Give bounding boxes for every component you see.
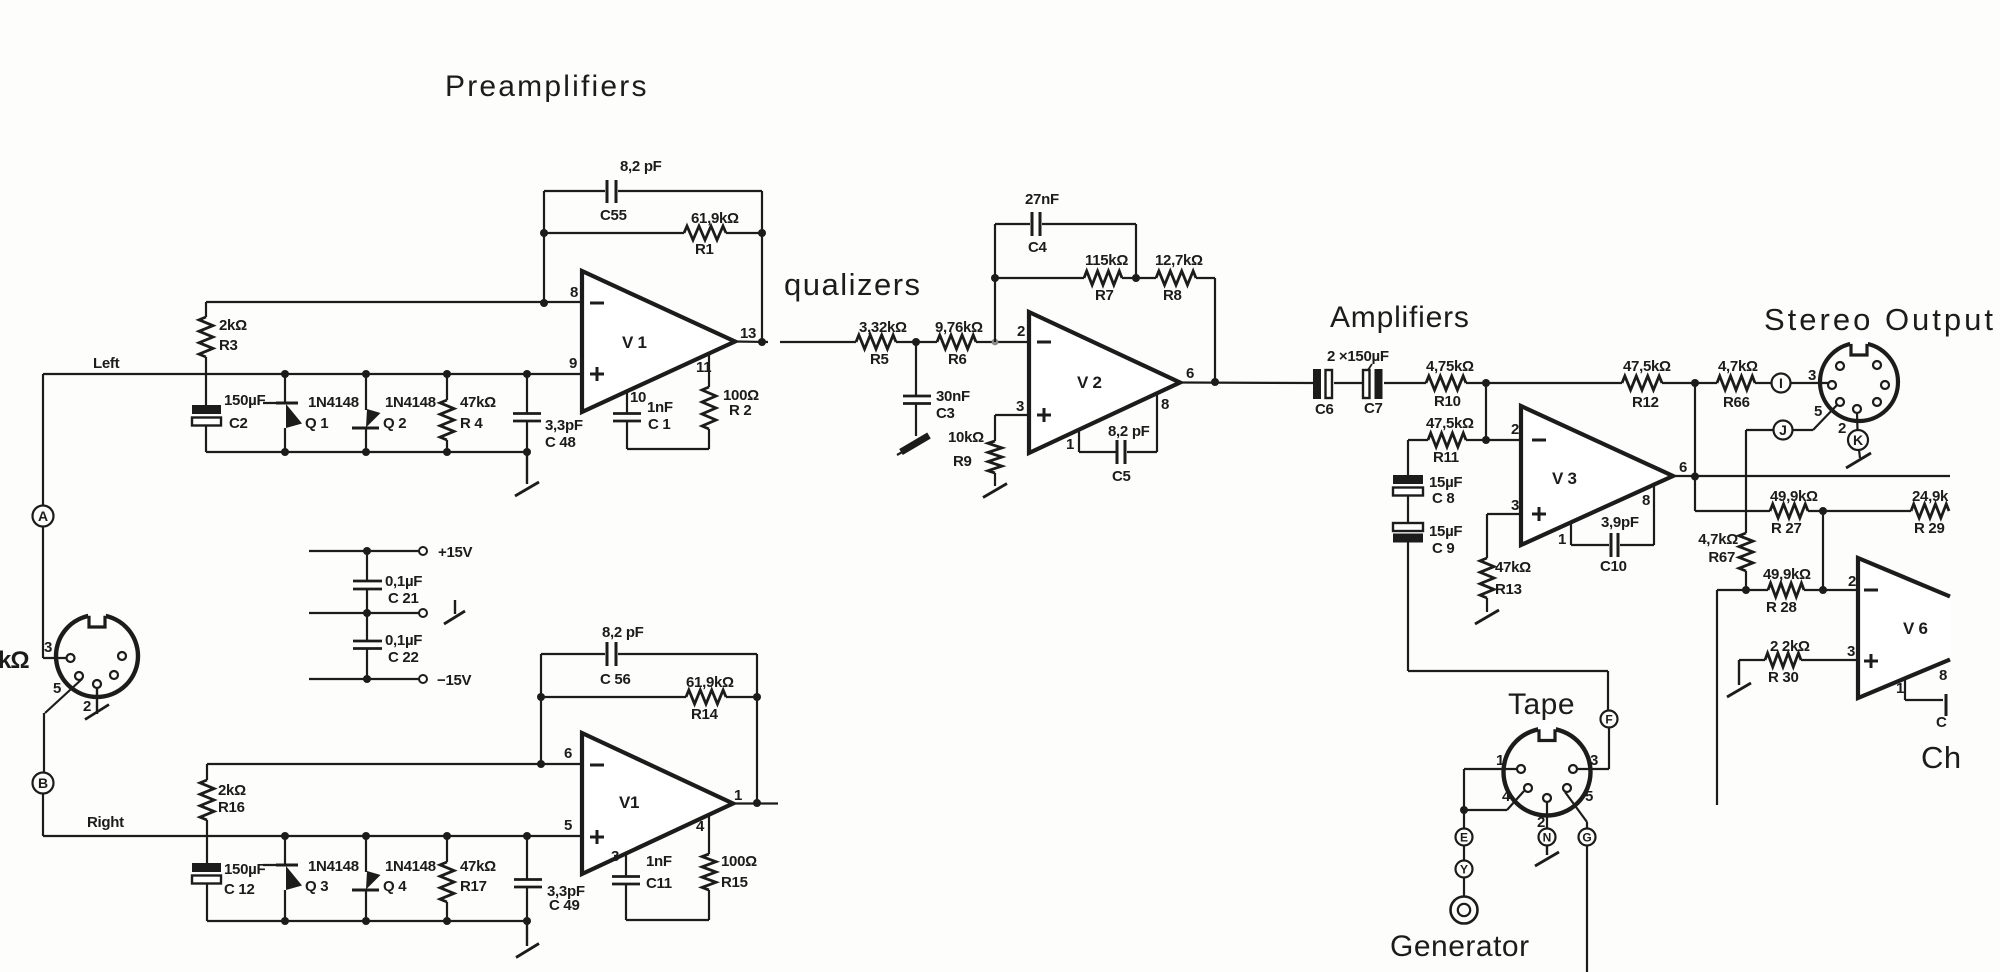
svg-text:0,1µF: 0,1µF [385,632,422,649]
svg-text:G: G [1582,830,1591,844]
svg-text:115kΩ: 115kΩ [1085,252,1128,269]
svg-text:C 9: C 9 [1432,540,1454,557]
svg-text:R7: R7 [1095,287,1114,304]
svg-text:C6: C6 [1315,401,1334,418]
svg-text:150µF: 150µF [224,861,265,878]
svg-text:R 4: R 4 [460,415,483,432]
svg-text:10kΩ: 10kΩ [948,429,984,446]
svg-text:1N4148: 1N4148 [308,394,359,411]
svg-text:8,2 pF: 8,2 pF [620,158,662,175]
svg-text:2: 2 [1838,420,1846,437]
svg-text:61,9kΩ: 61,9kΩ [686,674,734,691]
svg-text:1N4148: 1N4148 [385,394,436,411]
svg-text:47kΩ: 47kΩ [460,394,496,411]
svg-text:R 27: R 27 [1771,520,1802,537]
svg-text:3,3pF: 3,3pF [545,417,583,434]
svg-text:2kΩ: 2kΩ [219,317,247,334]
svg-text:1nF: 1nF [647,399,673,416]
svg-text:R16: R16 [218,799,245,816]
svg-text:47kΩ: 47kΩ [460,858,496,875]
svg-text:4,75kΩ: 4,75kΩ [1426,358,1474,375]
svg-text:61,9kΩ: 61,9kΩ [691,210,739,227]
svg-text:V 2: V 2 [1077,373,1102,392]
svg-text:49,9kΩ: 49,9kΩ [1770,488,1818,505]
svg-text:10: 10 [630,389,646,406]
svg-text:R11: R11 [1433,449,1459,466]
svg-text:3: 3 [1511,497,1519,514]
svg-text:C 56: C 56 [600,671,631,688]
svg-text:3: 3 [44,639,52,656]
svg-text:8: 8 [1939,667,1947,684]
svg-text:0,1µF: 0,1µF [385,573,422,590]
svg-text:C7: C7 [1364,400,1383,417]
svg-text:C 1: C 1 [648,416,670,433]
svg-text:5: 5 [564,817,572,834]
svg-text:C 8: C 8 [1432,490,1454,507]
svg-text:R12: R12 [1632,394,1659,411]
svg-text:6: 6 [1186,365,1194,382]
svg-text:6: 6 [564,745,572,762]
svg-text:C5: C5 [1112,468,1131,485]
svg-text:47,5kΩ: 47,5kΩ [1426,415,1474,432]
svg-text:9: 9 [569,355,577,372]
svg-text:150µF: 150µF [224,392,265,409]
svg-text:K: K [1853,432,1863,448]
svg-text:3: 3 [1590,752,1598,769]
svg-text:C10: C10 [1600,558,1627,575]
svg-text:1N4148: 1N4148 [308,858,359,875]
svg-text:C 12: C 12 [224,881,255,898]
svg-text:E: E [1460,830,1468,844]
svg-text:Tape: Tape [1508,688,1575,721]
svg-text:11: 11 [696,359,711,376]
svg-text:Q 1: Q 1 [305,415,328,432]
svg-text:100Ω: 100Ω [721,853,757,870]
svg-text:12,7kΩ: 12,7kΩ [1155,252,1203,269]
svg-text:F: F [1605,712,1612,726]
svg-text:2 2kΩ: 2 2kΩ [1770,638,1810,655]
svg-text:1: 1 [1896,680,1904,697]
svg-text:1: 1 [1558,531,1566,548]
svg-text:R10: R10 [1434,393,1461,410]
svg-text:2: 2 [1511,421,1519,438]
svg-text:R 29: R 29 [1914,520,1945,537]
svg-text:C11: C11 [646,875,672,892]
svg-text:R3: R3 [219,337,238,354]
svg-text:3: 3 [1016,398,1024,415]
svg-text:1nF: 1nF [646,853,672,870]
svg-text:8: 8 [1642,492,1650,509]
svg-text:R66: R66 [1723,394,1750,411]
svg-text:V 3: V 3 [1552,469,1577,488]
svg-text:4,7kΩ: 4,7kΩ [1698,531,1738,548]
svg-text:1: 1 [1496,752,1504,769]
svg-text:1N4148: 1N4148 [385,858,436,875]
svg-text:C 48: C 48 [545,434,576,451]
svg-text:B: B [38,775,48,791]
svg-text:J: J [1779,422,1787,438]
svg-text:Preamplifiers: Preamplifiers [445,70,649,103]
svg-text:3,32kΩ: 3,32kΩ [859,319,907,336]
svg-text:R8: R8 [1163,287,1182,304]
svg-text:R1: R1 [695,241,714,258]
svg-text:Y: Y [1460,862,1468,876]
svg-text:27nF: 27nF [1025,191,1059,208]
svg-text:R6: R6 [948,351,967,368]
svg-text:R14: R14 [691,706,719,723]
svg-text:30nF: 30nF [936,388,970,405]
svg-text:R9: R9 [953,453,972,470]
svg-text:2: 2 [83,698,91,715]
svg-text:3: 3 [1808,367,1816,384]
svg-text:Stereo Output: Stereo Output [1764,302,1996,337]
svg-text:C4: C4 [1028,239,1048,256]
svg-text:2 ×150µF: 2 ×150µF [1327,348,1389,365]
svg-text:Ch: Ch [1921,740,1962,775]
svg-text:C2: C2 [229,415,248,432]
svg-text:C: C [1936,714,1947,731]
svg-text:2kΩ: 2kΩ [218,782,246,799]
svg-text:2: 2 [1848,573,1856,590]
svg-text:C3: C3 [936,405,955,422]
svg-text:kΩ: kΩ [0,647,29,674]
svg-text:4: 4 [696,818,705,835]
svg-text:V 1: V 1 [622,333,647,352]
svg-text:47kΩ: 47kΩ [1495,559,1531,576]
svg-text:C55: C55 [600,207,627,224]
svg-text:C 22: C 22 [388,649,419,666]
svg-text:2: 2 [1017,323,1025,340]
svg-text:5: 5 [1585,788,1593,805]
svg-text:+15V: +15V [438,544,473,561]
svg-text:4: 4 [1502,788,1511,805]
svg-text:R67: R67 [1708,549,1735,566]
svg-text:5: 5 [1814,403,1822,420]
svg-text:C 21: C 21 [388,590,419,607]
svg-text:8,2 pF: 8,2 pF [602,624,644,641]
svg-text:3: 3 [1847,643,1855,660]
svg-text:R 30: R 30 [1768,669,1799,686]
svg-text:13: 13 [740,325,756,342]
svg-text:N: N [1543,830,1552,844]
svg-text:2: 2 [1537,814,1545,831]
svg-text:R 28: R 28 [1766,599,1797,616]
svg-text:8: 8 [1161,396,1169,413]
svg-text:47,5kΩ: 47,5kΩ [1623,358,1671,375]
svg-text:5: 5 [53,680,61,697]
svg-text:9,76kΩ: 9,76kΩ [935,319,983,336]
svg-text:3,9pF: 3,9pF [1601,514,1639,531]
svg-text:49,9kΩ: 49,9kΩ [1763,566,1811,583]
svg-text:R5: R5 [870,351,889,368]
svg-text:R 2: R 2 [729,402,751,419]
svg-text:15µF: 15µF [1429,474,1462,491]
svg-text:Left: Left [93,355,120,372]
svg-text:R13: R13 [1495,581,1522,598]
svg-text:24,9k: 24,9k [1912,488,1949,505]
svg-text:R15: R15 [721,874,748,891]
svg-text:Q 4: Q 4 [383,878,407,895]
svg-text:Generator: Generator [1390,930,1530,963]
svg-text:3: 3 [611,848,619,865]
svg-text:15µF: 15µF [1429,523,1462,540]
svg-text:Right: Right [87,814,124,831]
svg-text:C 49: C 49 [549,897,580,914]
svg-text:A: A [38,508,48,524]
svg-text:qualizers: qualizers [784,267,922,302]
svg-text:Amplifiers: Amplifiers [1330,301,1470,334]
svg-text:1: 1 [1066,436,1074,453]
svg-text:I: I [1779,375,1783,391]
svg-text:−15V: −15V [437,672,472,689]
svg-text:Q 2: Q 2 [383,415,406,432]
svg-text:V 6: V 6 [1903,619,1928,638]
svg-text:R17: R17 [460,878,487,895]
svg-text:8: 8 [570,284,578,301]
svg-text:8,2 pF: 8,2 pF [1108,423,1150,440]
svg-text:6: 6 [1679,459,1687,476]
svg-text:Q 3: Q 3 [305,878,328,895]
svg-text:V1: V1 [619,793,639,812]
svg-text:1: 1 [734,787,742,804]
svg-text:4,7kΩ: 4,7kΩ [1718,358,1758,375]
